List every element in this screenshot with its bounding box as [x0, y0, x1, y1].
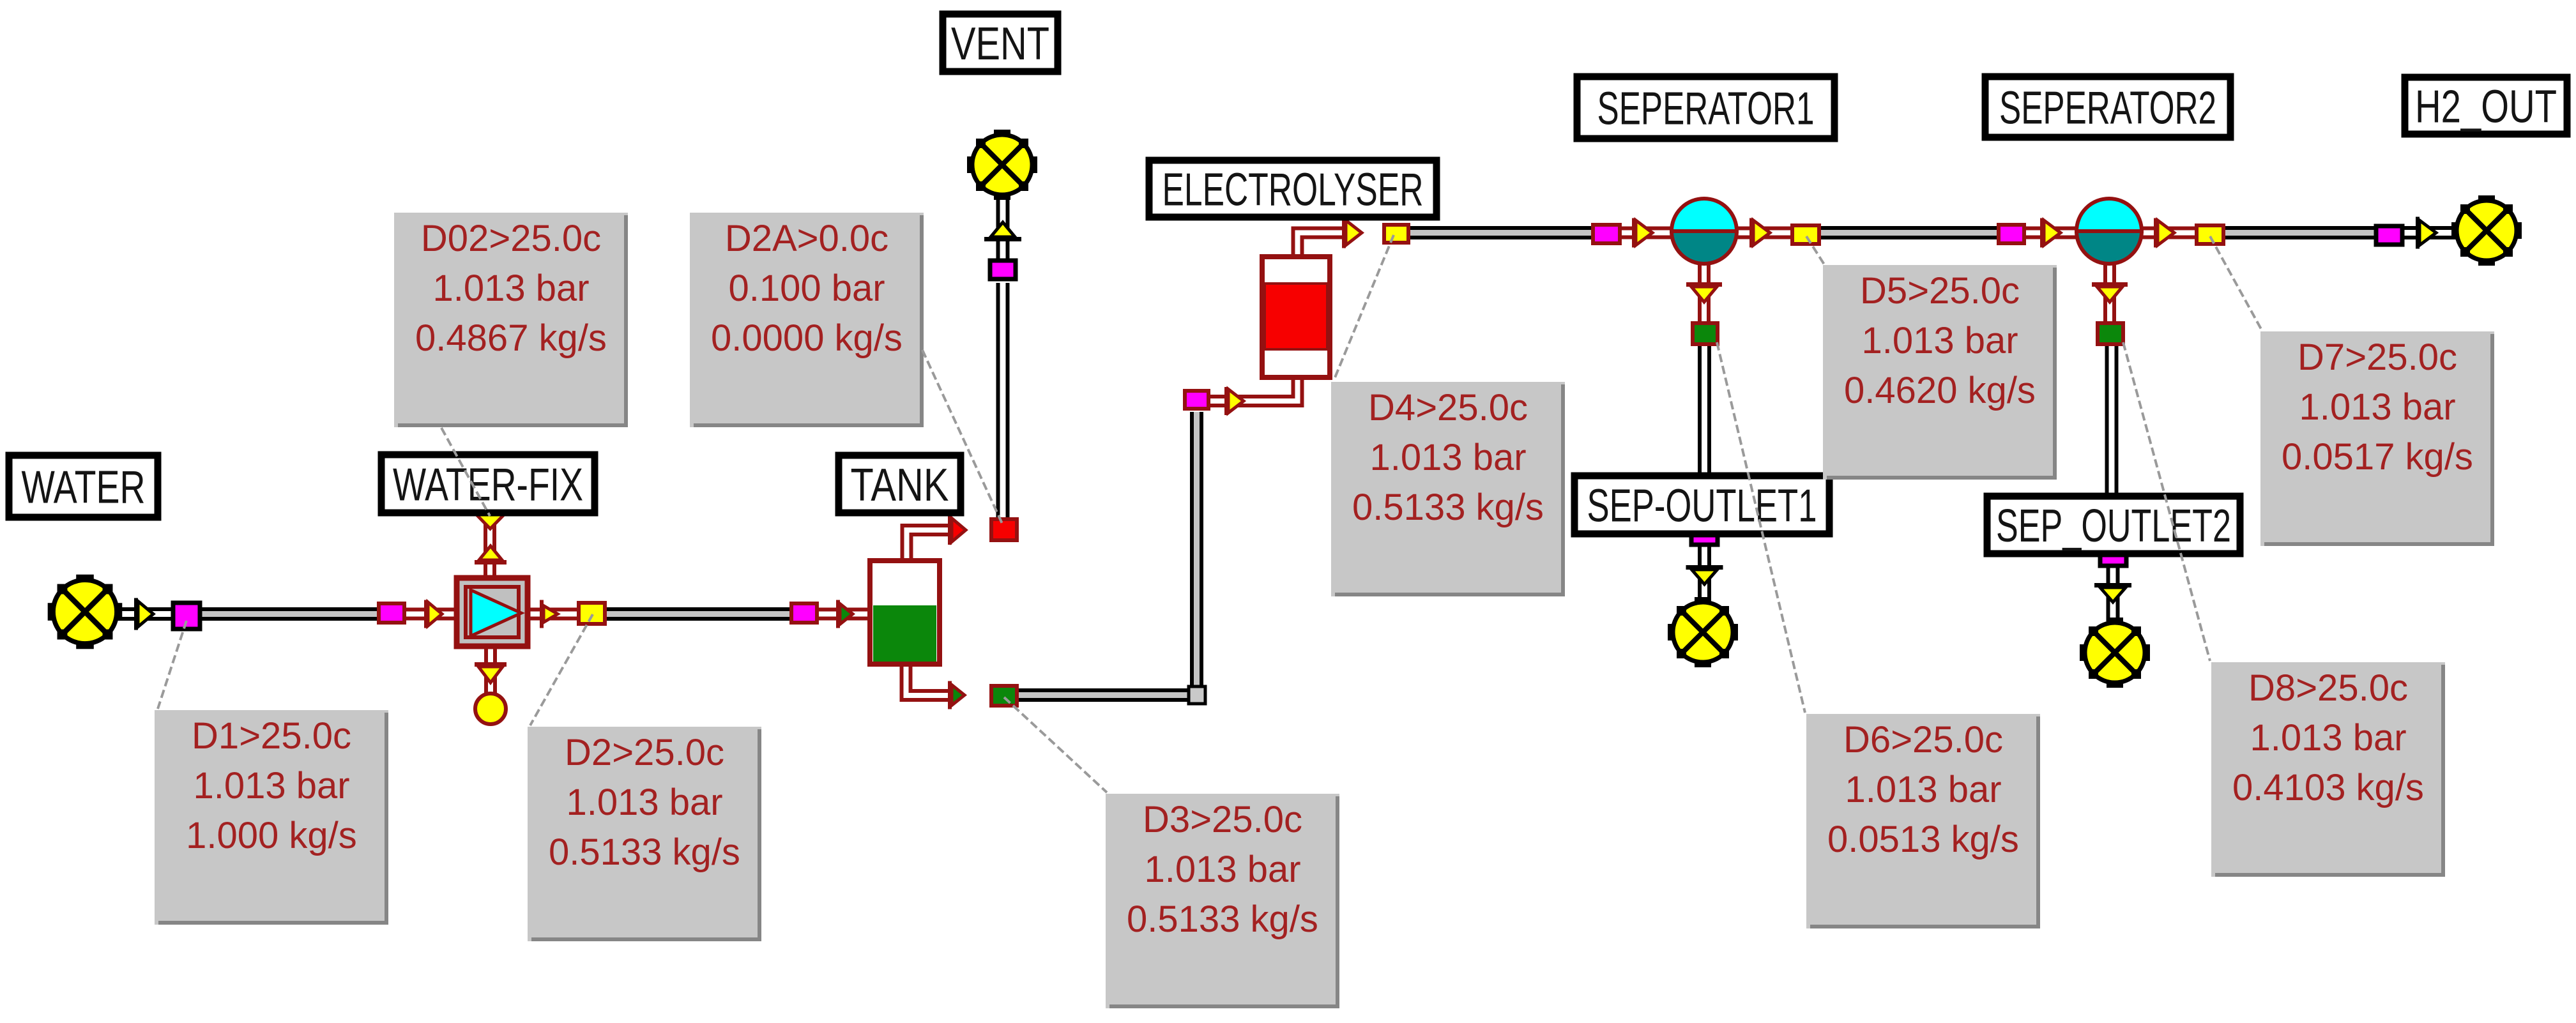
svg-text:SEP-OUTLET1: SEP-OUTLET1 — [1587, 481, 1817, 532]
node D3 connector (green square) — [991, 686, 1017, 706]
leader D6 to node connector — [1717, 342, 1805, 713]
SEP_OUTLET2 node connector (magenta) — [2100, 546, 2126, 566]
svg-text:D2A>0.0c: D2A>0.0c — [725, 218, 888, 259]
wire: SEP-OUTLET1 node stem — [1698, 544, 1711, 603]
leader D8 to node connector — [2123, 342, 2210, 661]
wire: TANK top to vent valve (elbow) — [904, 527, 954, 563]
TANK vent connector (red square) — [991, 519, 1017, 540]
flow arrow into TANK (green) — [836, 600, 840, 628]
svg-text:H2_OUT: H2_OUT — [2415, 82, 2557, 133]
svg-text:0.100 bar: 0.100 bar — [728, 268, 885, 309]
svg-text:0.5133 kg/s: 0.5133 kg/s — [1127, 898, 1318, 940]
node D1 connector (magenta) — [173, 603, 200, 629]
svg-text:D2>25.0c: D2>25.0c — [565, 732, 724, 773]
SEPERATOR2 inlet connector (magenta) — [1999, 225, 2024, 243]
corner junction — [1189, 686, 1205, 704]
svg-text:D02>25.0c: D02>25.0c — [421, 218, 601, 259]
data box D5 — [1823, 265, 2057, 480]
svg-text:1.013 bar: 1.013 bar — [1369, 437, 1526, 478]
label H2_OUT — [2405, 77, 2567, 134]
wire: corner junction up to ELECTROLYSER inlet — [1190, 412, 1203, 688]
flow arrow to SEP_OUTLET2 node — [2094, 583, 2131, 587]
component SEPERATOR2 — [2075, 199, 2144, 264]
wire: node D2 to TANK inlet — [607, 607, 792, 621]
component ELECTROLYSER — [1262, 257, 1330, 377]
SEPERATOR1 inlet connector (magenta) — [1593, 225, 1620, 243]
svg-text:1.013 bar: 1.013 bar — [566, 782, 722, 823]
svg-text:ELECTROLYSER: ELECTROLYSER — [1162, 165, 1424, 216]
data box D8 — [2211, 662, 2445, 877]
label TANK — [839, 455, 961, 513]
svg-text:1.013 bar: 1.013 bar — [1845, 769, 2001, 810]
flow arrow to VENT node — [984, 237, 1021, 241]
wire: node D1 to WATER-FIX inlet — [202, 607, 379, 621]
node D6 connector (green square) — [1693, 323, 1718, 344]
svg-text:D8>25.0c: D8>25.0c — [2248, 667, 2408, 709]
wire: water source to node D1 — [116, 607, 174, 621]
label SEPERATOR2 — [1985, 77, 2230, 137]
wire: ELECTROLYSER inlet elbow — [1210, 377, 1300, 404]
label SEP-OUTLET1 — [1574, 476, 1829, 534]
component TANK — [870, 561, 940, 664]
svg-text:0.5133 kg/s: 0.5133 kg/s — [549, 831, 740, 873]
node D8 connector (green square) — [2098, 323, 2123, 344]
wire: SEPERATOR2 inlet pipe — [2026, 227, 2081, 239]
svg-text:D6>25.0c: D6>25.0c — [1843, 719, 2003, 761]
flow arrow below WATER-FIX label — [476, 515, 504, 529]
data box D3 — [1106, 794, 1339, 1008]
svg-text:0.0513 kg/s: 0.0513 kg/s — [1827, 819, 2019, 860]
WATER-FIX inlet connector (magenta) — [379, 603, 404, 623]
svg-text:VENT: VENT — [951, 19, 1049, 70]
node SEP_OUTLET2 boundary circle — [2080, 618, 2150, 688]
wire: H2_OUT node stem — [2404, 226, 2456, 239]
leader D2 to node connector — [530, 614, 593, 725]
svg-text:D3>25.0c: D3>25.0c — [1143, 799, 1302, 840]
component SEPERATOR1 — [1670, 199, 1739, 264]
wire: SEPERATOR1 outlet pipe — [1732, 227, 1793, 239]
svg-text:1.013 bar: 1.013 bar — [2299, 386, 2455, 428]
wire: TANK bottom outlet (elbow) — [904, 662, 954, 698]
svg-text:0.0000 kg/s: 0.0000 kg/s — [711, 317, 903, 359]
wire: SEPERATOR1 drain to SEP-OUTLET1 — [1698, 346, 1711, 536]
flow arrow into WATER-FIX top — [475, 560, 507, 565]
SEP-OUTLET1 node connector (magenta) — [1691, 525, 1718, 545]
flow arrow out of WATER-FIX bottom — [475, 662, 507, 667]
node SEP-OUTLET1 boundary circle — [1668, 597, 1738, 667]
data box D2A — [690, 213, 924, 427]
svg-text:0.0517 kg/s: 0.0517 kg/s — [2282, 436, 2473, 478]
wire: WATER-FIX outlet connector pipe — [525, 608, 579, 621]
svg-text:1.013 bar: 1.013 bar — [2250, 717, 2406, 759]
flow arrow into SEPERATOR2 — [2040, 218, 2044, 248]
node D4 connector (yellow) — [1384, 225, 1408, 243]
svg-text:SEP_OUTLET2: SEP_OUTLET2 — [1996, 501, 2231, 552]
data box D6 — [1806, 714, 2040, 928]
svg-text:WATER: WATER — [22, 462, 146, 513]
flow arrow into SEPERATOR1 — [1632, 218, 1636, 248]
svg-text:0.4867 kg/s: 0.4867 kg/s — [415, 317, 607, 359]
wire: SEPERATOR2 outlet pipe — [2137, 227, 2197, 239]
svg-text:1.013 bar: 1.013 bar — [193, 765, 349, 807]
wire: WATER-FIX inlet connector pipe — [406, 608, 460, 621]
label WATER — [9, 455, 158, 517]
data box D02 — [394, 213, 628, 427]
label ELECTROLYSER — [1149, 160, 1437, 217]
wire: TANK outlet to corner junction — [1019, 688, 1197, 702]
wire: SEPERATOR1 inlet pipe — [1622, 227, 1677, 239]
wire: vent node stem — [996, 195, 1010, 262]
leader D7 to node connector — [2210, 236, 2262, 330]
flow arrow down from SEPERATOR1 — [1686, 282, 1722, 287]
node D5 connector (yellow) — [1792, 225, 1819, 244]
data box D1 — [155, 710, 388, 925]
wire: vent riser — [996, 283, 1010, 519]
flow arrow at WATER node — [134, 598, 138, 630]
wire: TANK inlet connector pipe — [819, 608, 873, 621]
flow arrow to SEP-OUTLET1 node — [1686, 565, 1723, 570]
svg-text:0.4620 kg/s: 0.4620 kg/s — [1844, 370, 2036, 411]
svg-text:TANK: TANK — [851, 460, 949, 511]
data box D4 — [1331, 382, 1565, 596]
flow arrow into WATER-FIX — [424, 600, 428, 628]
svg-text:0.4103 kg/s: 0.4103 kg/s — [2232, 767, 2424, 808]
wire: WATER-FIX top branch pipe — [484, 515, 496, 581]
svg-text:1.013 bar: 1.013 bar — [432, 268, 589, 309]
node D2 connector (yellow) — [579, 603, 605, 624]
node WATER boundary circle — [48, 575, 123, 649]
svg-text:SEPERATOR1: SEPERATOR1 — [1597, 84, 1815, 135]
flow arrow down from SEPERATOR2 — [2092, 282, 2128, 287]
TANK inlet connector (magenta) — [791, 603, 817, 623]
svg-text:D1>25.0c: D1>25.0c — [192, 715, 351, 757]
label SEPERATOR1 — [1577, 77, 1834, 139]
wire: ELECTROLYSER outlet elbow — [1295, 231, 1348, 257]
leader D1 to node connector — [158, 621, 187, 709]
wire: node D7 to H2_OUT — [2225, 226, 2377, 239]
svg-text:1.013 bar: 1.013 bar — [1861, 320, 2018, 361]
leader D5 to node connector — [1806, 236, 1824, 264]
flow arrow out of ELECTROLYSER — [1342, 218, 1346, 248]
wire: SEPERATOR1 drain pipe — [1698, 261, 1711, 323]
svg-text:WATER-FIX: WATER-FIX — [393, 460, 583, 511]
svg-text:D5>25.0c: D5>25.0c — [1860, 270, 2020, 312]
H2_OUT node connector (magenta) — [2376, 226, 2402, 245]
flow arrow to H2_OUT node — [2416, 217, 2420, 249]
flow arrow to vent connector (red) — [948, 515, 952, 545]
leader D4 to node connector — [1334, 235, 1394, 381]
label VENT — [943, 14, 1058, 72]
wire: node D4 to SEPERATOR1 — [1410, 226, 1594, 239]
wire: SEP_OUTLET2 node stem — [2107, 562, 2120, 621]
wire: SEPERATOR2 drain pipe — [2103, 261, 2116, 323]
WATER-FIX bottom stub node (yellow circle) — [475, 693, 506, 724]
wire: WATER-FIX bottom branch pipe — [484, 644, 497, 693]
svg-text:1.000 kg/s: 1.000 kg/s — [186, 815, 357, 856]
svg-text:D7>25.0c: D7>25.0c — [2298, 337, 2457, 378]
svg-text:0.5133 kg/s: 0.5133 kg/s — [1352, 487, 1544, 528]
VENT node connector (magenta) — [990, 261, 1016, 279]
leader D3 to node connector — [1004, 697, 1107, 792]
component WATER-FIX (mixer) — [457, 578, 528, 646]
leader D02 to WATER-FIX top — [441, 428, 490, 516]
svg-text:SEPERATOR2: SEPERATOR2 — [1999, 83, 2216, 134]
flow arrow into ELECTROLYSER — [1224, 387, 1228, 415]
ELECTROLYSER inlet connector (magenta) — [1185, 391, 1208, 409]
node H2_OUT boundary circle — [2451, 195, 2522, 266]
flow arrow out of TANK (green) — [948, 681, 952, 709]
flow arrow out of SEPERATOR1 — [1749, 218, 1753, 248]
svg-text:D4>25.0c: D4>25.0c — [1368, 387, 1528, 428]
leader D2A to vent connector — [922, 350, 1003, 525]
label WATER-FIX — [381, 455, 595, 513]
data box D2 — [528, 727, 761, 941]
svg-text:1.013 bar: 1.013 bar — [1144, 849, 1300, 890]
wire: SEPERATOR2 drain to SEP_OUTLET2 — [2105, 346, 2119, 557]
node VENT boundary circle — [967, 130, 1037, 200]
node D7 connector (yellow) — [2197, 225, 2223, 244]
label SEP_OUTLET2 — [1987, 496, 2240, 554]
flow arrow out of SEPERATOR2 — [2154, 218, 2158, 248]
flow arrow out of WATER-FIX — [540, 600, 544, 628]
wire: node D5 to SEPERATOR2 — [1821, 226, 1999, 239]
data box D7 — [2260, 331, 2494, 546]
